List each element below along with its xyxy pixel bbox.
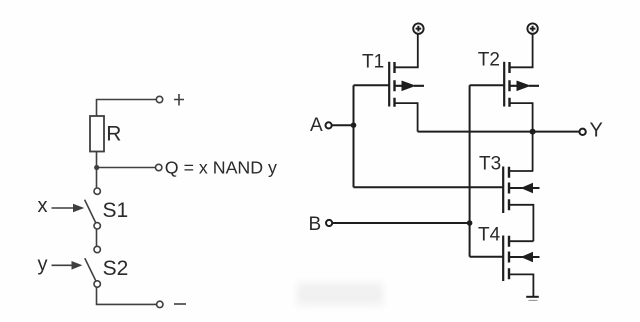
svg-text:x: x <box>38 195 48 217</box>
svg-text:R: R <box>106 123 121 146</box>
svg-text:Y: Y <box>590 120 603 142</box>
svg-text:S1: S1 <box>103 199 129 222</box>
svg-text:T3: T3 <box>479 154 501 175</box>
svg-text:Q = x NAND y: Q = x NAND y <box>165 158 277 178</box>
svg-text:T2: T2 <box>478 50 500 71</box>
svg-text:T4: T4 <box>478 225 501 246</box>
svg-text:y: y <box>38 254 48 276</box>
svg-text:B: B <box>309 214 322 235</box>
svg-text:A: A <box>310 115 323 136</box>
svg-text:T1: T1 <box>362 52 384 73</box>
svg-text:S2: S2 <box>103 257 129 280</box>
